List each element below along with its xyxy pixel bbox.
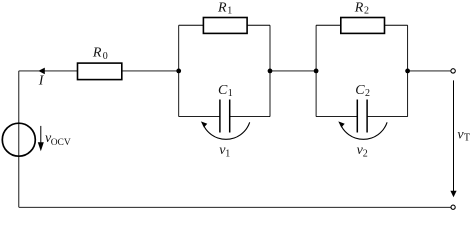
resistor R0 bbox=[78, 63, 122, 80]
svg-text:2: 2 bbox=[363, 149, 368, 160]
svg-text:R: R bbox=[92, 46, 102, 61]
wire RC2 top branch bbox=[316, 24, 408, 26]
voltage source vOCV bbox=[2, 123, 35, 156]
node D dot bbox=[405, 69, 410, 74]
voltage arc v1 bbox=[201, 121, 250, 139]
label C1 bbox=[218, 83, 233, 99]
svg-text:0: 0 bbox=[103, 51, 108, 62]
wire RC1 bottom branch bbox=[179, 116, 270, 118]
terminal top (open circle) bbox=[451, 69, 455, 73]
label vOCV bbox=[45, 131, 71, 148]
node A dot bbox=[176, 69, 181, 74]
svg-text:2: 2 bbox=[364, 6, 369, 17]
capacitor C2 bbox=[357, 100, 367, 133]
label R0 bbox=[92, 46, 108, 62]
vOCV arrow bbox=[38, 126, 44, 151]
label R2 bbox=[354, 0, 369, 16]
svg-text:2: 2 bbox=[365, 88, 370, 99]
wire RC2 bottom branch bbox=[316, 116, 408, 118]
wire top-left segment bbox=[19, 70, 78, 72]
wire left vertical bbox=[18, 71, 20, 207]
wire RC2 right vertical bbox=[407, 25, 409, 116]
label vT bbox=[457, 128, 470, 144]
svg-text:C: C bbox=[355, 83, 365, 98]
svg-text:OCV: OCV bbox=[51, 138, 71, 148]
svg-text:I: I bbox=[38, 73, 45, 88]
svg-text:C: C bbox=[218, 83, 228, 98]
label C2 bbox=[355, 83, 370, 99]
wire node D to terminal bbox=[408, 70, 451, 72]
voltage arc v2 bbox=[338, 121, 387, 139]
svg-text:T: T bbox=[464, 133, 470, 144]
current arrow I bbox=[38, 68, 45, 75]
node B dot bbox=[268, 69, 273, 74]
wire RC1 top branch bbox=[179, 24, 270, 26]
label v1 bbox=[219, 143, 230, 159]
svg-text:1: 1 bbox=[227, 6, 232, 17]
label R1 bbox=[217, 0, 232, 16]
svg-text:1: 1 bbox=[228, 88, 233, 99]
wire R0 to node A bbox=[122, 70, 179, 72]
svg-text:1: 1 bbox=[225, 149, 230, 160]
vT arrow bbox=[450, 80, 456, 197]
wire RC1 left vertical bbox=[178, 25, 180, 116]
wire bottom bbox=[19, 206, 451, 208]
svg-text:R: R bbox=[354, 0, 364, 15]
wire RC1 right vertical bbox=[269, 25, 271, 116]
label v2 bbox=[357, 143, 368, 159]
resistor R1 bbox=[203, 18, 247, 34]
wire node B to node C bbox=[270, 70, 316, 72]
capacitor C1 bbox=[220, 100, 230, 133]
node C dot bbox=[314, 69, 319, 74]
terminal bottom (open circle) bbox=[451, 205, 455, 209]
resistor R2 bbox=[341, 18, 385, 34]
svg-text:R: R bbox=[217, 0, 227, 15]
wire RC2 left vertical bbox=[315, 25, 317, 116]
